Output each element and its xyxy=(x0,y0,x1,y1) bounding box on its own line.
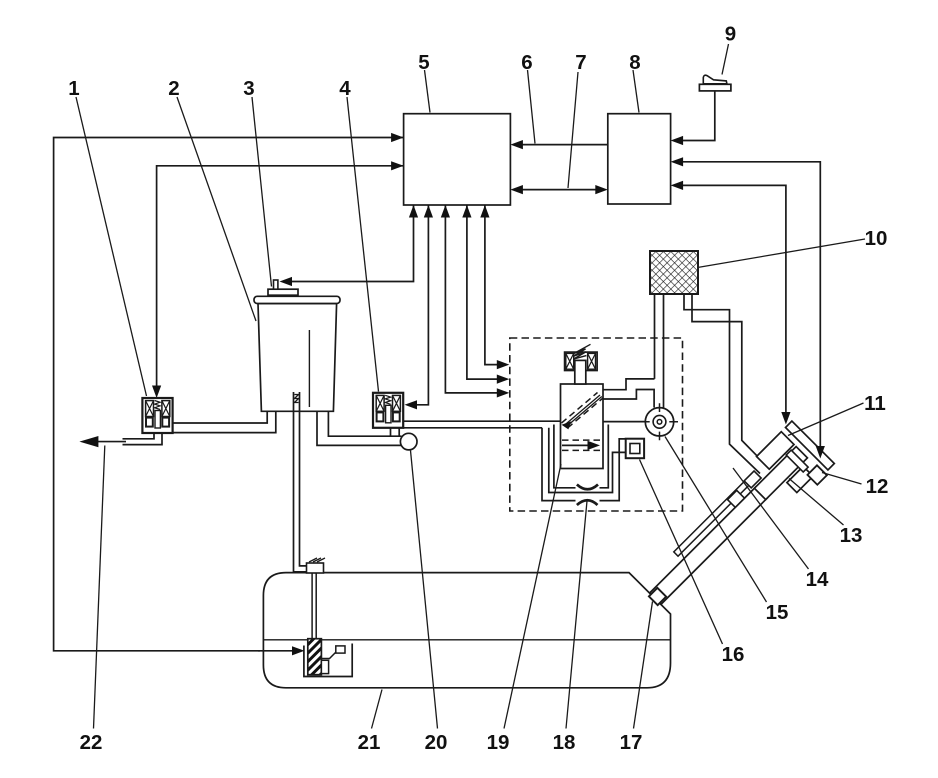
arrow left into sensor 3 xyxy=(280,277,293,286)
arrow up into box5 bottom x485 xyxy=(480,205,489,218)
svg-text:3: 3 xyxy=(243,77,254,100)
valve diagonal passage arrowhead xyxy=(562,421,572,429)
svg-text:22: 22 xyxy=(80,731,103,754)
svg-text:6: 6 xyxy=(521,51,532,74)
arrow up into box5 bottom x428 xyxy=(424,205,433,218)
canister center tube squiggle xyxy=(295,395,299,403)
pipe: solenoid 1 down to vent xyxy=(123,433,163,445)
float arm xyxy=(321,652,336,659)
tube seal disc xyxy=(786,450,808,472)
leader 2 xyxy=(177,97,256,321)
arrow into box5 right at y189.6 xyxy=(510,185,523,194)
box 5 (ECM) xyxy=(404,114,511,205)
breather step fitting xyxy=(744,471,761,488)
svg-text:20: 20 xyxy=(425,731,448,754)
leader 6 xyxy=(528,70,536,144)
svg-text:21: 21 xyxy=(358,731,381,754)
leader 7 xyxy=(568,72,578,188)
wire: pump feed over tank xyxy=(258,650,294,652)
leader 20 xyxy=(411,451,438,729)
wire: box5 bottom line 5 into module xyxy=(485,206,499,365)
valve solenoid stem xyxy=(575,360,586,384)
pipe: filter to filler neck vent (inner) xyxy=(692,294,770,469)
svg-text:2: 2 xyxy=(168,77,179,100)
pipe fitting 17 at tank xyxy=(649,588,666,605)
arrow down onto cap 12 xyxy=(816,446,825,459)
leader 15 xyxy=(665,437,767,603)
pipe: filter riser verticals xyxy=(655,295,664,408)
leader 18 xyxy=(566,501,587,729)
arrow into fuel pump (right-pointing) xyxy=(292,646,305,655)
svg-text:15: 15 xyxy=(766,601,789,624)
svg-text:1: 1 xyxy=(68,77,79,100)
svg-text:13: 13 xyxy=(840,524,863,547)
sender tube top fitting xyxy=(307,563,324,573)
wire: box8 to box5 line xyxy=(521,144,608,146)
leader 22 xyxy=(94,446,105,729)
solenoid valve 4 (purge) xyxy=(373,393,403,428)
leader 16 xyxy=(640,460,723,645)
clamp fitting on pipe 14 xyxy=(728,490,745,507)
leader 12 xyxy=(822,473,862,485)
leader 17 xyxy=(634,602,653,729)
svg-text:11: 11 xyxy=(864,392,886,415)
box 8 xyxy=(608,114,671,204)
vent arrow to atmosphere xyxy=(95,441,126,443)
svg-text:18: 18 xyxy=(553,731,576,754)
neck housing upper wall xyxy=(757,432,794,469)
diaphragm 18 white gaps xyxy=(576,482,600,491)
pipe: canister center down to tank sender xyxy=(294,392,312,572)
leader 14 xyxy=(733,468,809,569)
svg-text:19: 19 xyxy=(487,731,510,754)
svg-text:9: 9 xyxy=(725,23,736,46)
pump bracket xyxy=(304,644,352,677)
arrow into ECM box 5 left upper xyxy=(391,133,404,142)
arrow left into solenoid 4 xyxy=(405,400,418,409)
pipe: canister left stub to solenoid 1 xyxy=(173,411,276,432)
wire: box5 bottom line 2 to purge solenoid 4 xyxy=(415,206,428,405)
filler tube end 13 xyxy=(754,447,807,500)
filler cap 12 xyxy=(807,465,826,484)
valve diagonal passage (dashed) xyxy=(562,393,598,424)
valve solenoid coil block xyxy=(565,352,598,370)
wire: icon 9 to box 8 xyxy=(681,91,715,141)
canister inner partition line xyxy=(308,330,310,407)
leader 13 xyxy=(789,479,844,526)
wire: box5-box8 double arrow line xyxy=(520,189,598,191)
wire: outer left harness line xyxy=(54,138,404,651)
arrow right into dashed module y393 xyxy=(497,388,510,397)
switch icon 9 xyxy=(699,75,731,91)
arrow into ECM box 5 left lower xyxy=(391,161,404,170)
filter 10 xyxy=(650,251,698,294)
valve spring (diagonal zigzag) xyxy=(573,344,590,359)
rollover valve 16 xyxy=(626,439,644,459)
junction circle 20 xyxy=(400,433,417,450)
valve horizontal passage (dashed) xyxy=(562,439,600,441)
leader 21 xyxy=(372,690,383,729)
svg-text:7: 7 xyxy=(575,51,586,74)
wire: neck line lower part xyxy=(785,350,787,413)
arrow up into box5 bottom x413 xyxy=(409,205,418,218)
leader 11 xyxy=(788,403,864,436)
float xyxy=(336,646,345,653)
arrow into box8 right at y140.5 xyxy=(671,136,684,145)
wire: box8 to filler neck line (inner) xyxy=(681,185,786,350)
valve coil left X xyxy=(566,353,574,369)
svg-text:14: 14 xyxy=(806,568,829,591)
leader 19 xyxy=(504,464,561,729)
leader 9 xyxy=(722,44,729,75)
arrow up into box5 bottom x467 xyxy=(462,205,471,218)
wire: box5 bottom line 4 into module xyxy=(467,206,499,380)
pipe: canister right stub to junction 20 xyxy=(317,411,402,445)
filler pipe group (rotated 45) xyxy=(633,421,837,625)
pipe: purge line to module valve xyxy=(403,421,561,428)
pipe: filter to filler neck vent (outer) xyxy=(684,294,760,474)
svg-text:5: 5 xyxy=(418,51,429,74)
arrow right into dashed module y379 xyxy=(497,375,510,384)
arrow down into solenoid 1 top xyxy=(152,386,161,399)
fuel tank 21 outline xyxy=(263,573,670,688)
leader 1 xyxy=(76,97,147,396)
canister lid xyxy=(254,296,340,303)
arrow into box5 right at y144.6 xyxy=(510,140,523,149)
pipe: outer jacket around module valve xyxy=(542,428,626,501)
svg-text:12: 12 xyxy=(866,475,889,498)
wire: cap sensor line lower part xyxy=(819,350,821,447)
valve coil right X xyxy=(588,353,596,369)
leader 3 xyxy=(252,97,272,287)
svg-text:16: 16 xyxy=(722,643,745,666)
valve diagonal passage (solid tube) xyxy=(564,395,602,427)
svg-text:8: 8 xyxy=(629,51,640,74)
pressure sensor 15 xyxy=(641,403,678,440)
module valve body 19 xyxy=(561,384,604,469)
fuel sender tube xyxy=(312,565,316,639)
valve horizontal passage arrow xyxy=(562,444,591,446)
leader 10 xyxy=(698,239,866,268)
filler pipe 14 xyxy=(650,487,767,604)
solenoid valve 1 (vent) xyxy=(142,398,172,433)
dashed module boundary xyxy=(510,338,683,511)
pump sock xyxy=(321,660,328,673)
arrow right into dashed module y365 xyxy=(497,360,510,369)
neck housing lower wall xyxy=(787,466,813,492)
wire: valve to pressure sensor 15 xyxy=(603,421,645,423)
breather tube xyxy=(674,476,755,557)
wire: box8 to filler cap sensor line (outer) xyxy=(681,162,820,350)
pipe: valve to filter riser (upper) xyxy=(603,379,655,390)
leader 8 xyxy=(633,70,639,113)
wire: box5 bottom line 1 to sensor 3 xyxy=(290,206,414,282)
arrow into box8 right at y185.4 xyxy=(671,181,684,190)
arrow down onto neck opening 11 xyxy=(781,412,790,425)
fuel level line xyxy=(263,639,670,641)
svg-text:10: 10 xyxy=(865,227,888,250)
svg-text:17: 17 xyxy=(620,731,643,754)
pipe: solenoid 4 stem down to junction 20 xyxy=(391,428,400,437)
leader 5 xyxy=(425,70,431,113)
pipe: valve to filter riser (lower) xyxy=(603,390,654,408)
leader 4 xyxy=(347,97,379,392)
neck housing end wall xyxy=(786,421,835,470)
canister 2 body xyxy=(258,304,337,412)
arrow into box8 right at y161.8 xyxy=(671,157,684,166)
svg-text:4: 4 xyxy=(339,77,351,100)
arrow up into box5 bottom x445 xyxy=(441,205,450,218)
wire: second harness line to solenoid 1 xyxy=(157,166,404,388)
fuel pump (hatched) xyxy=(308,639,322,675)
inner bracket below module valve xyxy=(554,425,608,488)
arrow into box8 left at y189.6 xyxy=(595,185,608,194)
wire: box5 bottom line 3 into module xyxy=(445,206,499,393)
sensor 3 on canister xyxy=(268,289,298,295)
diaphragm 18 arcs xyxy=(577,485,598,490)
